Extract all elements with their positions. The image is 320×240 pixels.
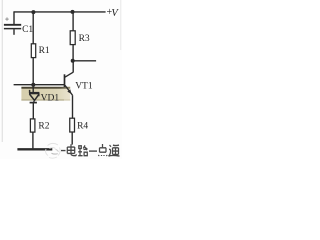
svg-text:VT1: VT1	[75, 81, 93, 91]
svg-text:R4: R4	[77, 121, 88, 131]
svg-text:R1: R1	[39, 46, 50, 56]
svg-text:C1: C1	[22, 25, 33, 35]
svg-text:R2: R2	[38, 121, 49, 131]
svg-text:VD1: VD1	[41, 93, 60, 103]
svg-text:R3: R3	[79, 34, 90, 44]
svg-text:V: V	[111, 8, 119, 19]
